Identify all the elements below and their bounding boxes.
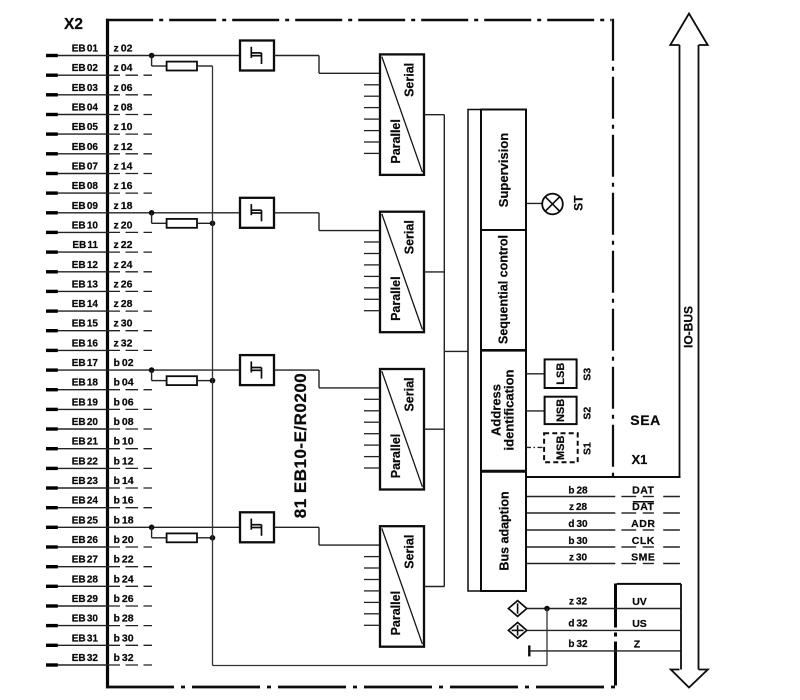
svg-text:ADR: ADR [631,518,655,530]
svg-text:S1: S1 [582,442,594,455]
svg-text:Parallel: Parallel [389,119,403,163]
svg-text:b28: b28 [114,613,134,625]
svg-text:d32: d32 [568,618,588,629]
svg-text:b32: b32 [114,652,134,664]
svg-text:b18: b18 [114,514,134,526]
svg-text:EB19: EB19 [72,397,99,408]
svg-text:EB31: EB31 [72,633,99,644]
svg-text:EB11: EB11 [72,240,98,251]
svg-text:EB22: EB22 [72,456,99,467]
svg-text:z04: z04 [114,62,133,74]
svg-text:EB27: EB27 [72,555,99,566]
svg-text:Bus adaption: Bus adaption [498,491,512,570]
svg-text:EB04: EB04 [72,103,99,114]
svg-text:EB25: EB25 [72,515,99,526]
svg-text:DAT: DAT [632,484,654,496]
svg-text:b08: b08 [114,416,134,428]
svg-text:identification: identification [502,369,517,450]
svg-text:b30: b30 [568,536,588,547]
svg-text:z14: z14 [114,161,133,173]
svg-text:z30: z30 [569,553,588,564]
svg-text:b26: b26 [114,593,134,605]
svg-text:DAT: DAT [632,501,654,513]
svg-text:EB14: EB14 [72,299,99,310]
svg-text:b06: b06 [114,396,134,408]
svg-text:z10: z10 [114,121,133,133]
svg-text:b20: b20 [114,534,134,546]
svg-text:MSB: MSB [555,436,567,461]
svg-text:z02: z02 [114,43,133,55]
svg-text:EB15: EB15 [72,319,99,330]
svg-text:b10: b10 [114,436,134,448]
svg-text:EB10: EB10 [72,220,99,231]
svg-text:Parallel: Parallel [389,276,403,320]
svg-text:EB32: EB32 [72,653,99,664]
svg-text:d30: d30 [568,519,588,530]
svg-text:EB13: EB13 [72,279,99,290]
svg-text:EB02: EB02 [72,63,99,74]
svg-text:CLK: CLK [632,535,655,547]
svg-text:Supervision: Supervision [496,133,511,207]
svg-text:z18: z18 [114,200,133,212]
svg-text:b24: b24 [114,573,134,585]
svg-text:X2: X2 [64,16,83,33]
svg-text:UV: UV [632,596,647,608]
svg-text:X1: X1 [632,452,648,467]
svg-text:LSB: LSB [555,363,567,385]
svg-text:z28: z28 [114,298,133,310]
svg-text:Serial: Serial [402,535,416,569]
svg-text:Serial: Serial [402,377,416,411]
svg-text:SME: SME [631,551,655,563]
svg-text:EB06: EB06 [72,142,99,153]
svg-text:z22: z22 [114,239,133,251]
svg-text:EB18: EB18 [72,378,99,389]
svg-text:EB05: EB05 [72,122,99,133]
svg-text:EB28: EB28 [72,574,99,585]
svg-text:S3: S3 [582,368,594,381]
svg-text:Serial: Serial [402,220,416,254]
svg-text:EB17: EB17 [72,358,99,369]
svg-text:EB20: EB20 [72,417,99,428]
svg-text:b12: b12 [114,455,134,467]
svg-text:EB01: EB01 [72,44,99,55]
svg-text:b02: b02 [114,357,134,369]
svg-text:EB12: EB12 [72,260,99,271]
svg-text:z06: z06 [114,82,133,94]
svg-text:EB09: EB09 [72,201,99,212]
svg-text:Sequential control: Sequential control [497,235,511,344]
svg-text:z24: z24 [114,259,133,271]
svg-text:z32: z32 [569,597,588,608]
svg-text:S2: S2 [582,407,594,420]
svg-text:NSB: NSB [555,399,567,422]
svg-text:z16: z16 [114,180,133,192]
svg-text:b30: b30 [114,632,134,644]
svg-text:z08: z08 [114,102,133,114]
svg-text:EB16: EB16 [72,338,99,349]
svg-text:US: US [632,618,647,630]
svg-text:Parallel: Parallel [389,434,403,478]
svg-text:z32: z32 [114,337,133,349]
svg-text:IO-BUS: IO-BUS [682,306,696,348]
svg-text:EB07: EB07 [72,162,99,173]
svg-text:b04: b04 [114,377,134,389]
svg-text:ST: ST [572,195,586,211]
svg-text:EB30: EB30 [72,614,99,625]
svg-text:EB26: EB26 [72,535,99,546]
svg-text:EB03: EB03 [72,83,99,94]
svg-text:EB21: EB21 [72,437,99,448]
svg-text:z28: z28 [569,502,588,513]
svg-text:Serial: Serial [402,63,416,97]
svg-text:z30: z30 [114,318,133,330]
svg-text:SEA: SEA [630,412,661,428]
svg-text:b16: b16 [114,495,134,507]
svg-text:EB29: EB29 [72,594,99,605]
svg-text:z12: z12 [114,141,133,153]
svg-text:b32: b32 [568,639,588,650]
svg-text:z26: z26 [114,278,133,290]
svg-text:81 EB10-E/R0200: 81 EB10-E/R0200 [291,373,310,518]
svg-text:Z: Z [634,639,641,651]
svg-text:z20: z20 [114,219,133,231]
svg-text:b28: b28 [568,486,588,497]
svg-text:EB08: EB08 [72,181,99,192]
svg-text:Parallel: Parallel [389,591,403,635]
svg-text:b22: b22 [114,554,134,566]
svg-text:EB23: EB23 [72,476,99,487]
svg-text:EB24: EB24 [72,496,99,507]
svg-text:b14: b14 [114,475,134,487]
